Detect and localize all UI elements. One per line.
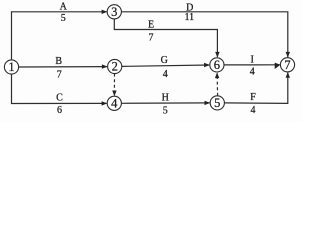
arrowhead A into node3 <box>102 10 108 14</box>
svg-text:I: I <box>251 55 254 66</box>
node 3 circle <box>107 5 121 19</box>
svg-text:4: 4 <box>250 67 255 78</box>
svg-text:E: E <box>148 20 154 31</box>
svg-text:4: 4 <box>251 105 256 116</box>
svg-text:1: 1 <box>8 60 14 74</box>
arrowhead C into node4 <box>102 101 108 105</box>
svg-text:7: 7 <box>57 69 62 80</box>
svg-text:3: 3 <box>111 5 117 19</box>
wire activity B: node1 to node2 <box>19 66 107 68</box>
svg-text:7: 7 <box>284 58 290 72</box>
node 4 circle <box>107 96 121 110</box>
wire dummy dashed node5 to node6 <box>216 73 219 96</box>
arrowhead dummy into node6 <box>215 72 219 78</box>
arrowhead H into node5 <box>205 101 211 105</box>
wire activity E: node3 down, right, down to node6 <box>114 19 217 57</box>
svg-text:B: B <box>55 56 62 67</box>
wire dummy dashed node2 to node4 <box>113 74 115 96</box>
node 6 circle <box>210 58 224 72</box>
arrowhead E into node6 <box>215 52 219 58</box>
svg-text:4: 4 <box>111 96 118 110</box>
arrowhead G into node6 <box>204 63 210 67</box>
arrowhead dummy into node4 <box>112 91 116 97</box>
svg-text:6: 6 <box>57 105 62 116</box>
svg-text:2: 2 <box>112 60 118 74</box>
svg-text:5: 5 <box>163 105 168 116</box>
arrowhead D into node7 <box>286 52 290 58</box>
wire activity A: node1 up then right to node3 <box>12 12 107 60</box>
svg-text:G: G <box>161 55 168 66</box>
arrowhead B into node2 <box>102 64 108 68</box>
node 2 circle <box>108 59 122 73</box>
svg-text:4: 4 <box>163 69 168 80</box>
svg-text:11: 11 <box>184 12 194 23</box>
wire activity F: node5 right then up to node7 <box>224 73 287 104</box>
wire activity H: node4 to node5 <box>121 102 209 104</box>
svg-text:F: F <box>250 92 256 103</box>
wire activity C: node1 down then right to node4 <box>12 74 107 104</box>
wire activity G: node2 to node6 <box>122 65 209 66</box>
arrowhead F into node7 <box>286 72 290 78</box>
wire activity D: node3 right then down to node7 <box>121 12 287 57</box>
svg-text:5: 5 <box>214 96 220 110</box>
svg-text:5: 5 <box>61 13 66 24</box>
svg-text:7: 7 <box>149 32 154 43</box>
node 1 circle <box>4 60 18 74</box>
svg-text:H: H <box>162 93 169 104</box>
node 5 circle <box>210 96 224 110</box>
svg-text:A: A <box>60 1 68 12</box>
arrowhead I into node7 <box>275 63 281 69</box>
svg-text:C: C <box>56 93 63 104</box>
wire activity I: node6 to node7 <box>224 64 280 66</box>
node 7 circle <box>280 58 294 72</box>
svg-text:6: 6 <box>214 58 220 72</box>
